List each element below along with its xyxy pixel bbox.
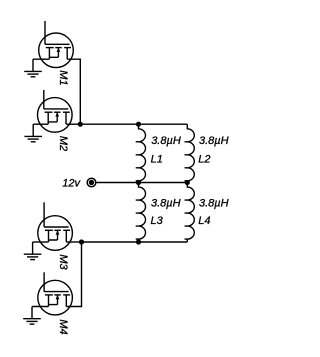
inductor L2 <box>185 124 195 182</box>
svg-text:3.8µH: 3.8µH <box>151 135 181 147</box>
junction node B (M3/M4 drains) <box>79 239 84 244</box>
wire M3 source to ground <box>33 241 49 243</box>
transistor M3 <box>38 202 73 250</box>
junction L3 bottom <box>136 239 141 244</box>
wire M3 drain to node B <box>66 241 81 243</box>
wire M2 source to ground <box>33 123 48 125</box>
svg-text:3.8µH: 3.8µH <box>199 198 229 210</box>
svg-text:L3: L3 <box>151 215 164 227</box>
junction node A (M1/M2 drains) <box>78 122 83 127</box>
wire node B bus <box>82 241 188 243</box>
svg-text:12v: 12v <box>62 177 81 189</box>
svg-text:3.8µH: 3.8µH <box>199 135 229 147</box>
wire M1 drain to node A rail <box>67 59 80 124</box>
junction L2/L4 midpoint <box>185 180 190 185</box>
wire node A bus <box>80 123 187 125</box>
inductor L4 <box>185 183 195 243</box>
ground (M4) <box>23 307 41 325</box>
svg-text:L1: L1 <box>151 154 163 166</box>
ground (M3) <box>24 242 42 260</box>
inductor L1 <box>136 124 146 182</box>
transistor M1 <box>39 21 74 68</box>
wire M4 source to ground <box>32 306 49 308</box>
ground (M2) <box>24 124 42 142</box>
wire 12v bus <box>96 182 187 184</box>
junction L1 top <box>136 122 141 127</box>
svg-text:M3: M3 <box>57 254 69 270</box>
wire M1 source to ground <box>33 58 49 60</box>
wire node B rail to M4 drain <box>66 242 81 307</box>
junction L1/L3 midpoint <box>136 180 141 185</box>
inductor L3 <box>136 183 146 243</box>
ground (M1) <box>24 59 42 77</box>
svg-text:L2: L2 <box>198 154 210 166</box>
svg-text:M4: M4 <box>57 319 69 334</box>
transistor M4 <box>38 272 73 315</box>
svg-text:M1: M1 <box>57 70 69 85</box>
12v terminal <box>87 178 96 187</box>
svg-text:3.8µH: 3.8µH <box>151 198 181 210</box>
svg-text:L4: L4 <box>198 215 210 227</box>
svg-text:M2: M2 <box>57 136 69 151</box>
wire M2 drain to node A <box>66 123 80 125</box>
transistor M2 <box>38 90 73 132</box>
